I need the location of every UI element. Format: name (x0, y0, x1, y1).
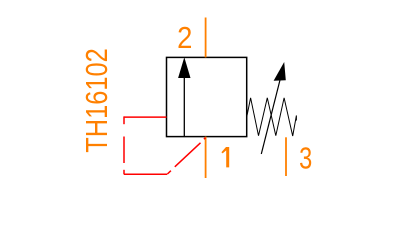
pilot line: bottom horizontal segment (124, 173, 167, 175)
svg-text:2: 2 (177, 22, 192, 56)
adjustment arrowhead (274, 62, 286, 81)
port 2 label (177, 22, 192, 56)
svg-text:3: 3 (299, 140, 312, 175)
svg-text:TH16102: TH16102 (78, 48, 113, 152)
label TH16102 (78, 48, 113, 152)
pilot line: left vertical dashed segment (123, 116, 125, 174)
pilot line: diagonal dashed segment (167, 138, 205, 174)
spring (247, 98, 297, 136)
port 2 line (205, 18, 207, 58)
flow arrowhead (178, 57, 190, 78)
flow arrow shaft (183, 77, 185, 137)
port 1 label (221, 147, 229, 167)
port 3 line (285, 137, 287, 176)
port 1 line (205, 137, 207, 178)
valve body (167, 57, 247, 136)
pilot line: top horizontal segment (124, 116, 167, 118)
port 3 label (299, 140, 312, 175)
adjustment arrow shaft (261, 78, 280, 154)
